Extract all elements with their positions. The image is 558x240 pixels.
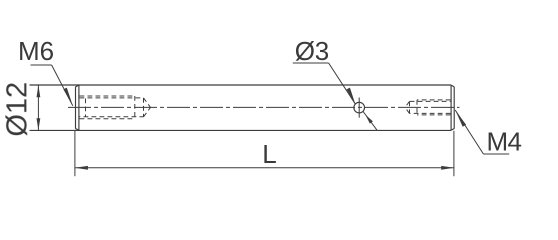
dimension Ø12 arrow (up) bbox=[37, 85, 41, 97]
dimension Ø12 line bbox=[37, 85, 39, 130]
M6 thread major diameter hidden line (top) bbox=[80, 95, 135, 97]
right end face bbox=[453, 87, 455, 129]
M4 drill point cone (top) bbox=[405, 101, 410, 107]
label M6 leader arrowhead bbox=[63, 88, 72, 106]
M4 drill minor diameter hidden line (top) bbox=[410, 100, 451, 102]
M6 drill minor diameter hidden line (bottom) bbox=[80, 116, 144, 118]
M4 drill depth end hidden line bbox=[409, 101, 411, 113]
centerline (dash-dot axis) bbox=[68, 106, 460, 108]
label M6 leader line bbox=[52, 65, 73, 106]
svg-text:Ø3: Ø3 bbox=[295, 36, 329, 66]
dimension L extension line (right) bbox=[453, 131, 455, 176]
label M4 leader shoulder bbox=[483, 153, 509, 155]
svg-text:M4: M4 bbox=[487, 126, 522, 156]
M4 thread major diameter hidden line (top) bbox=[417, 99, 451, 101]
dimension L arrow (left) bbox=[75, 166, 88, 170]
dimension L line bbox=[75, 167, 454, 169]
right chamfer corner (top) bbox=[451, 85, 454, 87]
shaft bottom edge with Ø12 bottom extension line bbox=[30, 129, 452, 131]
M6 drill point cone (top) bbox=[144, 98, 151, 108]
cross hole circle Ø3 bbox=[354, 102, 365, 113]
label Ø3 leader line (upper) bbox=[329, 63, 356, 104]
svg-text:M6: M6 bbox=[18, 36, 54, 66]
left chamfer corner (top) bbox=[76, 85, 79, 87]
right chamfer tangent line bbox=[450, 85, 452, 130]
svg-text:Ø12: Ø12 bbox=[2, 82, 34, 137]
label Ø3 leader shoulder bbox=[293, 62, 329, 64]
M6 drill minor diameter hidden line (top) bbox=[80, 97, 144, 99]
dimension L arrow (right) bbox=[441, 166, 454, 170]
shaft top edge with Ø12 top extension line bbox=[30, 84, 452, 86]
svg-text:L: L bbox=[262, 139, 276, 169]
label M4 leader arrowhead bbox=[455, 110, 466, 127]
right chamfer corner (bottom) bbox=[451, 129, 454, 131]
label M4 leader line bbox=[455, 110, 483, 154]
label Ø3 lower arrowhead at hole rim bbox=[365, 115, 373, 124]
M4 thread depth end hidden line bbox=[416, 100, 418, 115]
left chamfer corner (bottom) bbox=[76, 129, 79, 131]
label Ø3 leader line (lower) bbox=[363, 112, 377, 131]
label Ø3 upper arrowhead at hole rim bbox=[347, 88, 356, 104]
M6 thread major diameter hidden line (bottom) bbox=[80, 118, 135, 120]
dimension L extension line (left) bbox=[74, 131, 76, 176]
M6 drill point cone (bottom) bbox=[144, 107, 151, 116]
dimension Ø12 arrow (down) bbox=[37, 118, 41, 130]
M4 drill minor diameter hidden line (bottom) bbox=[410, 112, 451, 114]
M4 drill point cone (bottom) bbox=[405, 107, 410, 113]
left chamfer tangent line bbox=[78, 85, 80, 130]
cross hole vertical center mark bbox=[358, 98, 360, 118]
left end face bbox=[75, 87, 77, 129]
M6 entrance chamfer hidden line bbox=[85, 99, 87, 117]
M6 thread depth end hidden line bbox=[134, 96, 136, 119]
M4 thread major diameter hidden line (bottom) bbox=[417, 114, 451, 116]
label M6 leader shoulder bbox=[31, 64, 52, 66]
M6 drill depth end hidden line bbox=[143, 98, 145, 117]
